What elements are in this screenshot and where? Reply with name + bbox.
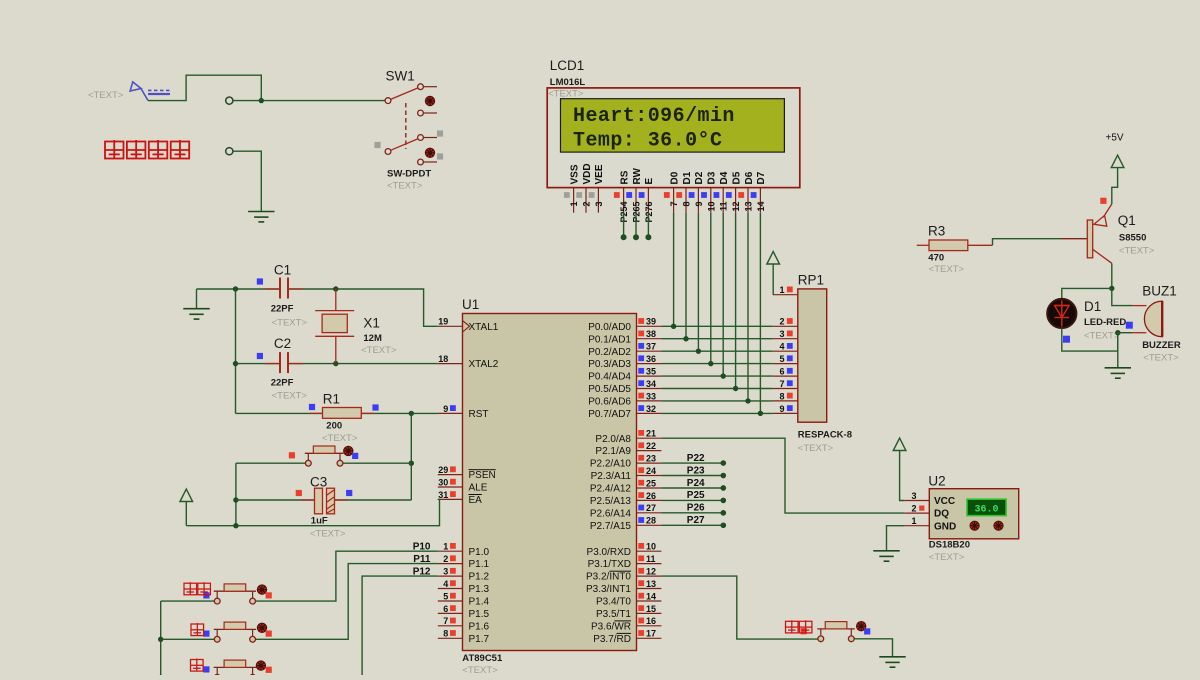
wire P0.6 to RP1 pin 8: [661, 400, 772, 402]
svg-text:RS: RS: [619, 170, 630, 184]
junction D5 x P0.5: [733, 386, 738, 391]
junction C2 row x rail: [233, 361, 238, 366]
junction C1 row x rail: [233, 286, 238, 291]
wire Q1 collector down: [1111, 263, 1113, 288]
reset button toggle: [344, 446, 353, 455]
wire P2.5 stub: [661, 499, 723, 501]
svg-text:7: 7: [443, 616, 448, 626]
wire P2.0 to U2 DQ: [661, 438, 904, 513]
junction collector node: [1109, 286, 1114, 291]
wire left rail (C1-C2-R1): [235, 289, 237, 413]
svg-text:37: 37: [646, 342, 656, 352]
svg-text:6: 6: [779, 367, 784, 377]
svg-text:Q1: Q1: [1118, 213, 1136, 228]
resistor R3: [917, 240, 993, 251]
svg-text:1uF: 1uF: [311, 516, 328, 527]
wire button MINUS left: [161, 676, 215, 678]
svg-text:D1: D1: [682, 171, 693, 184]
svg-text:P1.5: P1.5: [469, 609, 490, 620]
wire P0.3 to RP1 pin 5: [661, 363, 772, 365]
wire T1 to SW1 pole A: [233, 100, 385, 102]
svg-text:<TEXT>: <TEXT>: [1084, 331, 1120, 342]
svg-text:<TEXT>: <TEXT>: [272, 391, 308, 402]
svg-text:7: 7: [779, 379, 784, 389]
svg-text:10: 10: [706, 202, 716, 212]
svg-text:D4: D4: [719, 171, 730, 184]
capacitor C2: [265, 352, 303, 373]
svg-text:5: 5: [443, 591, 448, 601]
svg-text:RW: RW: [632, 167, 643, 184]
LCD LCD1 body: [547, 88, 800, 188]
wire power arrow stem: [185, 502, 187, 526]
junction RST row x reset-button rail: [409, 411, 414, 416]
mcu U1 left pin 3: [438, 575, 463, 577]
mcu U1 left pin 5: [438, 600, 463, 602]
sensor U2 indicator 2: [994, 521, 1003, 530]
svg-text:P2.6/A14: P2.6/A14: [590, 508, 632, 519]
svg-text:R1: R1: [323, 392, 340, 407]
wire LCD D4 vertical: [722, 213, 724, 376]
switch SW1 grey markers: [374, 142, 380, 148]
junction button row: [409, 461, 414, 466]
wire battery to node: [148, 75, 261, 100]
resistor-pack RP1 pin 5: [773, 363, 798, 365]
resistor R1: [310, 408, 374, 419]
junction X1 bottom: [333, 361, 338, 366]
svg-text:12: 12: [731, 202, 741, 212]
svg-text:EA: EA: [469, 495, 483, 506]
svg-text:1: 1: [569, 202, 579, 207]
svg-text:VCC: VCC: [934, 496, 955, 507]
svg-text:3: 3: [779, 329, 784, 339]
svg-text:P12: P12: [413, 567, 431, 578]
push-button HEART (心音): [820, 629, 822, 636]
svg-text:26: 26: [646, 491, 656, 501]
svg-text:39: 39: [646, 317, 656, 327]
svg-text:2: 2: [443, 554, 448, 564]
svg-text:P2.4/A12: P2.4/A12: [590, 484, 632, 495]
svg-text:P0.2/AD2: P0.2/AD2: [588, 347, 631, 358]
wire LCD control pin stub x=636.0: [635, 213, 637, 238]
svg-text:P1.7: P1.7: [469, 634, 490, 645]
wire XTAL2 net / C2 row: [236, 363, 438, 365]
mcu U1 XTAL1 clock mark: [463, 321, 470, 332]
svg-text:16: 16: [646, 616, 656, 626]
svg-text:1: 1: [443, 542, 448, 552]
svg-text:17: 17: [646, 629, 656, 639]
wire LCD D5 vertical: [735, 213, 737, 389]
svg-text:1: 1: [779, 285, 784, 295]
svg-text:U1: U1: [462, 297, 479, 312]
push-button MINUS (减): [216, 667, 218, 674]
svg-text:RESPACK-8: RESPACK-8: [798, 430, 852, 441]
wire R3 to Q1 base: [993, 239, 1062, 246]
svg-text:P24: P24: [687, 478, 705, 489]
svg-text:8: 8: [443, 629, 448, 639]
wire collector to D1: [1062, 288, 1112, 299]
svg-text:R3: R3: [928, 224, 945, 239]
svg-text:P11: P11: [413, 554, 431, 565]
svg-text:<TEXT>: <TEXT>: [310, 529, 346, 540]
junction D3 x P0.3: [708, 361, 713, 366]
svg-text:34: 34: [646, 379, 656, 389]
resistor-pack RP1 body: [798, 289, 827, 422]
capacitor C3 (electrolytic): [301, 488, 348, 514]
svg-text:33: 33: [646, 391, 656, 401]
svg-text:U2: U2: [928, 474, 945, 489]
wire button ADD left: [161, 638, 215, 640]
svg-text:11: 11: [719, 202, 729, 212]
reset button markers: [289, 452, 295, 458]
junction rail C x ADD row: [158, 637, 163, 642]
svg-text:C1: C1: [274, 263, 291, 278]
mcu U1 right pin 16: [637, 625, 662, 627]
wire button SET left: [161, 600, 215, 602]
junction rail C x MINUS row: [158, 675, 163, 680]
wire P2.4 stub: [661, 487, 723, 489]
C2 blue marker: [257, 353, 263, 359]
ground (heart button): [879, 657, 905, 667]
junction buzzer/ground node: [1115, 330, 1120, 335]
wire reset button row: [236, 462, 411, 464]
transistor Q1 (S8550 PNP): [1087, 204, 1112, 263]
svg-text:1: 1: [911, 516, 916, 526]
svg-text:15: 15: [646, 604, 656, 614]
wire LCD D2 vertical: [697, 213, 699, 352]
mcu U1 right pin 33: [637, 400, 662, 402]
svg-text:30: 30: [438, 477, 448, 487]
svg-text:X1: X1: [363, 316, 380, 331]
wire LCD D7 vertical: [759, 213, 761, 414]
svg-text:P0.3/AD3: P0.3/AD3: [588, 359, 631, 370]
label 电源模块 (red pseudo-CJK): [105, 140, 124, 159]
svg-text:P3.4/T0: P3.4/T0: [596, 597, 631, 608]
svg-text:LCD1: LCD1: [550, 58, 585, 73]
svg-text:P22: P22: [687, 453, 705, 464]
svg-text:BUZZER: BUZZER: [1142, 340, 1181, 351]
wire P2.2 stub: [661, 462, 723, 464]
svg-text:3: 3: [594, 202, 604, 207]
svg-text:38: 38: [646, 329, 656, 339]
sensor U2 pin 1 GND: [904, 525, 929, 527]
svg-text:DS18B20: DS18B20: [929, 540, 970, 551]
wire to ground (buzzer): [1117, 333, 1119, 368]
svg-text:AT89C51: AT89C51: [462, 653, 503, 664]
svg-text:28: 28: [646, 516, 656, 526]
resistor-pack RP1 pin 3: [773, 338, 798, 340]
node P25 end: [721, 498, 727, 504]
capacitor C1: [265, 278, 303, 299]
MINUS button toggle: [256, 661, 265, 670]
svg-text:2: 2: [911, 504, 916, 514]
switch SW1 pole B: [385, 135, 437, 165]
junction D7 x P0.7: [758, 411, 763, 416]
svg-text:9: 9: [779, 404, 784, 414]
switch SW1 pole B toggle: [425, 148, 434, 157]
LCD screen: [561, 99, 785, 152]
svg-text:P3.6/WR: P3.6/WR: [591, 621, 631, 632]
svg-text:P2.2/A10: P2.2/A10: [590, 459, 632, 470]
svg-text:P2.1/A9: P2.1/A9: [595, 446, 631, 457]
wire P0.0 to RP1 pin 2: [661, 325, 772, 327]
mcu U1 right pin 32: [637, 412, 662, 414]
wire P0.1 to RP1 pin 3: [661, 338, 772, 340]
buzzer BUZ1: [1118, 301, 1162, 337]
junction D2 x P0.2: [696, 348, 701, 353]
sensor U2 body: [929, 489, 1018, 539]
MINUS button markers: [203, 666, 209, 672]
svg-text:C2: C2: [274, 336, 291, 351]
svg-text:<TEXT>: <TEXT>: [798, 443, 834, 454]
svg-text:21: 21: [646, 429, 656, 439]
switch SW1 pole A toggle: [425, 96, 434, 105]
HEART button markers: [801, 628, 807, 634]
ADD button markers: [203, 631, 209, 637]
wire RP1 pin1 to power: [772, 264, 774, 295]
mcu U1 right pin 13: [637, 588, 662, 590]
svg-text:P3.3/INT1: P3.3/INT1: [586, 584, 631, 595]
junction bottom rail x rail B: [233, 523, 238, 528]
svg-text:<TEXT>: <TEXT>: [361, 345, 397, 356]
svg-text:13: 13: [646, 579, 656, 589]
junction X1 top: [333, 286, 338, 291]
ADD button toggle: [257, 623, 266, 632]
svg-text:31: 31: [438, 490, 448, 500]
svg-text:32: 32: [646, 404, 656, 414]
svg-text:P0.6/AD6: P0.6/AD6: [588, 397, 631, 408]
svg-text:27: 27: [646, 503, 656, 513]
wire LCD control pin stub x=623.6: [623, 213, 625, 238]
resistor-pack RP1 pin 8: [773, 400, 798, 402]
svg-text:<TEXT>: <TEXT>: [1143, 353, 1179, 364]
svg-text:P27: P27: [687, 515, 705, 526]
mcu U1 right pin 38: [637, 338, 662, 340]
svg-text:SW-DPDT: SW-DPDT: [387, 169, 431, 180]
ground (power module): [248, 212, 274, 222]
svg-text:P0.0/AD0: P0.0/AD0: [588, 322, 631, 333]
mcu U1 left pin 18: [438, 363, 463, 365]
power symbol (RP1): [767, 252, 780, 265]
switch SW1 link (dashed): [405, 103, 407, 149]
svg-text:35: 35: [646, 367, 656, 377]
svg-text:VDD: VDD: [582, 163, 593, 184]
C3 markers: [296, 490, 302, 496]
mcu U1 left pin 4: [438, 588, 463, 590]
svg-text:P0.4/AD4: P0.4/AD4: [588, 372, 631, 383]
svg-text:D1: D1: [1084, 299, 1101, 314]
wire button rail C: [160, 601, 162, 677]
svg-text:36.0: 36.0: [974, 505, 998, 516]
svg-text:14: 14: [646, 591, 656, 601]
SET button toggle: [257, 585, 266, 594]
wire XTAL1 net / C1 row: [197, 289, 438, 326]
svg-text:P2.7/A15: P2.7/A15: [590, 521, 632, 532]
junction D6 x P0.6: [745, 398, 750, 403]
wire P0.7 to RP1 pin 9: [661, 412, 772, 414]
svg-text:Temp: 36.0°C: Temp: 36.0°C: [573, 130, 722, 153]
resistor-pack RP1 pin 7: [773, 388, 798, 390]
svg-text:<TEXT>: <TEXT>: [1119, 246, 1155, 257]
wire U2 VCC to power: [900, 451, 905, 501]
C1 blue marker: [257, 278, 263, 284]
svg-text:VSS: VSS: [569, 164, 580, 184]
terminal T2 (circle): [226, 148, 233, 155]
svg-text:25: 25: [646, 478, 656, 488]
label 心音 (red pseudo-CJK): [786, 620, 799, 633]
junction battery/T1 net: [259, 98, 264, 103]
junction C3 row x rail B: [233, 497, 238, 502]
svg-text:14: 14: [756, 202, 766, 212]
svg-text:24: 24: [646, 466, 656, 476]
wire P12 net: [256, 576, 438, 677]
mcu U1 right pin 11: [637, 563, 662, 565]
svg-text:P26: P26: [687, 503, 705, 514]
transistor Q1 red marker: [1100, 198, 1106, 204]
mcu U1 right pin 10: [637, 550, 662, 552]
svg-text:3: 3: [443, 567, 448, 577]
mcu U1 right pin 15: [637, 612, 662, 614]
junction D1 x P0.1: [683, 336, 688, 341]
resistor-pack RP1 pin 4: [773, 350, 798, 352]
node P27 end: [721, 522, 727, 528]
svg-text:GND: GND: [934, 521, 956, 532]
mcu U1 right pin 39: [637, 325, 662, 327]
svg-text:6: 6: [443, 604, 448, 614]
svg-text:<TEXT>: <TEXT>: [322, 433, 358, 444]
sensor U2 pin 3 VCC: [904, 500, 929, 502]
wire ground stem (crystal): [196, 289, 198, 309]
svg-text:4: 4: [443, 579, 448, 589]
svg-text:P0.5/AD5: P0.5/AD5: [588, 384, 631, 395]
mcu U1 right pin 17: [637, 637, 662, 639]
ground (U2): [873, 551, 899, 561]
wire +5V to Q1 emitter: [1112, 168, 1118, 204]
mcu U1 body: [463, 314, 637, 651]
svg-text:P2.5/A13: P2.5/A13: [590, 496, 632, 507]
battery symbol BAT (blue): [130, 82, 172, 101]
svg-text:4: 4: [779, 342, 784, 352]
mcu U1 right pin 22: [637, 450, 662, 452]
label 加 (red pseudo-CJK): [191, 623, 204, 636]
svg-text:PSEN: PSEN: [469, 470, 496, 481]
svg-text:<TEXT>: <TEXT>: [387, 181, 423, 192]
svg-text:P0.7/AD7: P0.7/AD7: [588, 409, 631, 420]
svg-text:P2.3/A11: P2.3/A11: [591, 471, 632, 482]
mcu U1 right pin 34: [637, 388, 662, 390]
wire heart button to ground: [854, 639, 892, 657]
crystal X1: [315, 289, 354, 364]
mcu U1 right pin 28: [637, 524, 662, 526]
svg-text:D0: D0: [669, 171, 680, 184]
mcu U1 right pin 24: [637, 475, 662, 477]
wire P10 net: [256, 551, 438, 601]
svg-text:22PF: 22PF: [271, 304, 294, 315]
sensor U2 pin 2 DQ: [904, 512, 929, 514]
mcu U1 left pin 30: [438, 486, 463, 488]
svg-text:P25: P25: [687, 490, 705, 501]
wire RST row / R1 net: [236, 412, 438, 414]
D1 blue markers: [1126, 322, 1133, 329]
svg-text:+5V: +5V: [1106, 133, 1124, 144]
wire LCD D1 vertical: [685, 213, 687, 339]
push-button (reset): [307, 453, 309, 460]
ground (buzzer): [1105, 368, 1131, 378]
mcu U1 right pin 35: [637, 375, 662, 377]
svg-text:DQ: DQ: [934, 509, 949, 520]
svg-text:P3.2/INT0: P3.2/INT0: [586, 572, 631, 583]
svg-text:P1.3: P1.3: [469, 584, 490, 595]
svg-text:<TEXT>: <TEXT>: [272, 318, 308, 329]
wire P0.2 to RP1 pin 4: [661, 350, 772, 352]
svg-text:P3.5/T1: P3.5/T1: [596, 609, 631, 620]
svg-text:XTAL2: XTAL2: [469, 359, 499, 370]
mcu U1 right pin 27: [637, 512, 662, 514]
svg-text:3: 3: [911, 491, 916, 501]
wire reset vertical: [410, 413, 412, 500]
svg-text:D3: D3: [707, 171, 718, 184]
mcu U1 left pin 31: [438, 498, 463, 500]
wire U2 GND to ground: [887, 526, 905, 551]
svg-text:200: 200: [326, 421, 342, 432]
mcu U1 left pin 7: [438, 625, 463, 627]
svg-text:P1.0: P1.0: [469, 547, 490, 558]
mcu U1 left pin 29: [438, 474, 463, 476]
wire INT0 to heart button: [661, 576, 817, 639]
junction D0 x P0.0: [671, 324, 676, 329]
resistor-pack RP1 pin 6: [773, 375, 798, 377]
mcu U1 left pin 9: [438, 412, 463, 414]
svg-text:P10: P10: [413, 542, 431, 553]
node P23 end: [721, 473, 727, 479]
svg-text:RP1: RP1: [798, 273, 824, 288]
power symbol (EA rail): [180, 489, 193, 502]
wire LCD D3 vertical: [710, 213, 712, 364]
mcu U1 right pin 25: [637, 487, 662, 489]
node P26 end: [721, 510, 727, 516]
svg-text:23: 23: [646, 454, 656, 464]
svg-text:9: 9: [443, 404, 448, 414]
mcu U1 left pin 2: [438, 563, 463, 565]
wire T2 to ground: [233, 151, 261, 211]
mcu U1 right pin 26: [637, 499, 662, 501]
push-button ADD (加): [216, 629, 218, 636]
svg-text:18: 18: [438, 354, 448, 364]
wire P2.3 stub: [661, 475, 723, 477]
wire bottom rail to EA pin 31: [186, 499, 439, 525]
resistor-pack RP1 pin 1: [773, 294, 798, 296]
sensor U2 display 36.0: [967, 499, 1006, 515]
mcu U1 left pin 1: [438, 550, 463, 552]
power symbol +5V: [1111, 155, 1124, 167]
mcu U1 right pin 14: [637, 600, 662, 602]
svg-text:9: 9: [694, 202, 704, 207]
terminal T1 (circle): [226, 97, 233, 104]
svg-text:<TEXT>: <TEXT>: [88, 90, 124, 101]
svg-text:2: 2: [582, 202, 592, 207]
wire P0.4 to RP1 pin 6: [661, 375, 772, 377]
svg-text:<TEXT>: <TEXT>: [548, 89, 584, 100]
mcu U1 left pin 19: [438, 325, 463, 327]
node P24 end: [721, 485, 727, 491]
wire Q1 base stub: [1061, 238, 1087, 240]
push-button SET (设置): [216, 591, 218, 598]
wire collector to buzzer top: [1112, 288, 1133, 305]
svg-text:470: 470: [928, 253, 944, 264]
wire left rail B: [235, 463, 237, 526]
svg-text:12: 12: [646, 567, 656, 577]
mcu U1 right pin 37: [637, 350, 662, 352]
wire P11 net: [256, 564, 438, 640]
